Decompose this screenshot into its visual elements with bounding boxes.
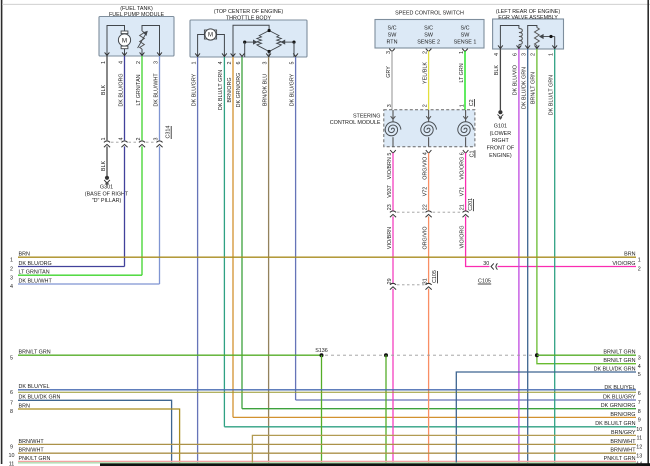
svg-text:DK BLU/GRY: DK BLU/GRY xyxy=(191,73,197,106)
svg-text:BLK: BLK xyxy=(494,65,500,76)
svg-text:DK GRN/ORG: DK GRN/ORG xyxy=(601,403,636,409)
steering control module box xyxy=(384,110,475,147)
svg-text:THROTTLE BODY: THROTTLE BODY xyxy=(226,16,272,22)
svg-text:31: 31 xyxy=(422,278,428,284)
wire ORG/VIO from module pin 4 xyxy=(428,153,430,211)
svg-text:4: 4 xyxy=(218,62,224,65)
svg-text:22: 22 xyxy=(422,204,428,210)
wire DK GRN/ORG from throttle pin xyxy=(241,57,243,409)
svg-text:5: 5 xyxy=(10,355,13,361)
svg-text:VIO/ORG: VIO/ORG xyxy=(459,225,465,248)
svg-text:2: 2 xyxy=(136,138,142,141)
svg-text:C314: C314 xyxy=(166,126,172,139)
fuel pump fuel level sensor wiring xyxy=(142,26,160,57)
wire VIO/BRN to bottom xyxy=(392,289,394,463)
splice drop junction xyxy=(384,353,388,357)
wire DK BLU/ORG from fuel pump pin 4 xyxy=(124,56,126,140)
dashed splice link S136 xyxy=(325,354,533,356)
svg-text:S/C: S/C xyxy=(388,26,397,32)
left wire 11 PNK/LT GRN xyxy=(18,460,636,462)
svg-text:21: 21 xyxy=(459,204,465,210)
wire DK BLU/ORG lower xyxy=(124,146,126,266)
svg-text:1: 1 xyxy=(191,62,197,65)
svg-text:4: 4 xyxy=(118,138,124,141)
svg-text:4: 4 xyxy=(494,53,500,56)
svg-text:ORG/VIO 4: ORG/VIO 4 xyxy=(422,152,428,180)
wire BRN/LT GRN left wire 5 xyxy=(18,354,322,356)
wire DK BLU/GRY from throttle pin xyxy=(295,57,297,400)
svg-text:VIO/ORG: VIO/ORG xyxy=(612,261,635,267)
svg-text:2: 2 xyxy=(531,53,537,56)
svg-text:DK BLU/DK GRN: DK BLU/DK GRN xyxy=(594,366,636,372)
svg-text:V71: V71 xyxy=(459,187,465,197)
svg-text:DK BLU/LT GRN: DK BLU/LT GRN xyxy=(595,421,635,427)
svg-text:SW: SW xyxy=(461,33,471,39)
bottom page-break bar xyxy=(100,463,650,466)
svg-text:14: 14 xyxy=(636,462,642,466)
svg-text:SW: SW xyxy=(388,33,398,39)
svg-text:DK BLU/GRY: DK BLU/GRY xyxy=(289,73,295,106)
svg-text:6: 6 xyxy=(236,62,242,65)
svg-text:BRN/LT GRN: BRN/LT GRN xyxy=(603,350,635,356)
wire BRN/LT GRN drop to bottom xyxy=(385,355,387,462)
svg-text:12: 12 xyxy=(636,445,642,451)
wire LT GRN/TAN lower xyxy=(141,146,143,275)
wire DK BLU/WHT lower xyxy=(159,146,161,284)
throttle motor M xyxy=(204,30,207,39)
svg-text:3: 3 xyxy=(522,53,528,56)
left wire 2 DK BLU/ORG xyxy=(18,266,125,268)
clockspring spirals xyxy=(385,122,401,136)
module exit stubs xyxy=(392,137,394,147)
svg-text:SENSE 1: SENSE 1 xyxy=(454,40,477,46)
wire BLK from EGR pin 4 xyxy=(499,49,501,110)
connector C105 breaks pins 29 31 xyxy=(390,283,396,285)
splice S136 xyxy=(320,353,324,357)
wire ORG/VIO to bottom xyxy=(428,289,430,463)
EGR pin arrows xyxy=(498,45,503,48)
svg-text:BRN/WHT: BRN/WHT xyxy=(610,448,636,454)
svg-text:BRN/LT GRN: BRN/LT GRN xyxy=(603,358,635,364)
svg-text:1: 1 xyxy=(10,257,13,263)
svg-text:BRN: BRN xyxy=(19,403,30,409)
svg-text:11: 11 xyxy=(636,436,642,442)
svg-text:DK BLU/LT GRN: DK BLU/LT GRN xyxy=(549,75,555,115)
svg-text:1: 1 xyxy=(101,61,107,64)
svg-text:1: 1 xyxy=(459,51,465,54)
wire DK BLU/GRY from throttle pin xyxy=(197,57,199,462)
svg-text:5: 5 xyxy=(638,372,641,378)
left wire 3 LT GRN/TAN xyxy=(18,274,142,276)
svg-text:SPEED CONTROL SWITCH: SPEED CONTROL SWITCH xyxy=(395,11,464,17)
C105 dashed link xyxy=(397,284,425,286)
svg-text:2: 2 xyxy=(422,104,428,107)
svg-text:DK BLU/LT GRN: DK BLU/LT GRN xyxy=(218,70,224,110)
svg-text:5: 5 xyxy=(289,62,295,65)
svg-text:29: 29 xyxy=(387,278,393,284)
TPS bottom wire to pin 3 xyxy=(268,52,270,58)
svg-text:BRN/WHT: BRN/WHT xyxy=(610,439,636,445)
svg-text:BRN/WHT: BRN/WHT xyxy=(19,439,45,445)
splice junction on BRN/LT GRN xyxy=(535,353,539,357)
wire VIO/BRN from module pin 5 xyxy=(392,153,394,211)
svg-text:3: 3 xyxy=(638,355,641,361)
svg-text:BLK: BLK xyxy=(101,85,107,96)
speed control switch box xyxy=(375,20,484,49)
svg-text:ENGINE): ENGINE) xyxy=(489,153,512,159)
svg-text:FUEL PUMP MODULE: FUEL PUMP MODULE xyxy=(109,12,165,18)
TPS top junction xyxy=(268,29,271,32)
wire DK BLU/DK GRN from EGR pin 3 xyxy=(527,49,529,462)
svg-text:DK BLU/GRY: DK BLU/GRY xyxy=(603,394,636,400)
svg-text:"D" PILLAR): "D" PILLAR) xyxy=(92,198,122,204)
C314 dashed links xyxy=(111,141,121,143)
corner throttle pin 4 to right wire 10 xyxy=(224,426,636,428)
wire DK BLU/VIO from EGR pin 6 xyxy=(518,49,520,462)
svg-text:DK GRN/ORG: DK GRN/ORG xyxy=(236,73,242,108)
svg-text:DK BLU/ORG: DK BLU/ORG xyxy=(118,73,124,106)
left wire 7 DK BLU/DK GRN xyxy=(18,400,172,462)
fuel pump module box xyxy=(99,17,174,57)
svg-text:(BASE OF RIGHT: (BASE OF RIGHT xyxy=(85,191,129,197)
right wire 5 DK BLU/DK GRN xyxy=(456,372,636,462)
throttle body box xyxy=(190,20,307,57)
svg-text:M: M xyxy=(208,33,213,39)
left wire 4 DK BLU/WHT xyxy=(18,283,160,285)
fuel pump motor M xyxy=(121,31,128,34)
svg-text:6: 6 xyxy=(638,391,641,397)
svg-text:FRONT OF: FRONT OF xyxy=(487,146,515,152)
TPS bridge diamond resistors xyxy=(257,31,269,52)
fuel pump pin arrows xyxy=(105,52,110,55)
svg-text:4: 4 xyxy=(638,364,641,370)
svg-text:YEL/BLK: YEL/BLK xyxy=(422,62,428,84)
fuel level variable resistor xyxy=(140,31,145,49)
page right border xyxy=(647,0,649,466)
wire VIO/ORG from module pin 6 xyxy=(465,153,467,211)
svg-text:G301: G301 xyxy=(100,185,113,191)
wire BRN/ORG from throttle pin xyxy=(232,57,234,417)
wire BRN/LT GRN drop from S136 to bottom xyxy=(321,355,323,462)
svg-text:10: 10 xyxy=(9,453,15,459)
svg-text:LT GRN: LT GRN xyxy=(459,63,465,82)
svg-text:1: 1 xyxy=(101,138,107,141)
svg-text:7: 7 xyxy=(10,400,13,406)
svg-text:2: 2 xyxy=(638,267,641,273)
EGR position sensor resistor xyxy=(535,28,540,46)
svg-text:4: 4 xyxy=(10,284,13,290)
svg-text:3: 3 xyxy=(386,51,392,54)
svg-text:3: 3 xyxy=(153,61,159,64)
svg-text:DK BLU/DK GRN: DK BLU/DK GRN xyxy=(19,395,61,401)
wire BRN/DK BLU from throttle pin xyxy=(268,57,270,462)
wire LT GRN xyxy=(464,51,466,110)
svg-text:VIO/ORG 6: VIO/ORG 6 xyxy=(459,152,465,180)
svg-text:SW: SW xyxy=(424,33,434,39)
svg-text:DK BLU/DK GRN: DK BLU/DK GRN xyxy=(522,67,528,109)
svg-text:VIO/BRN 5: VIO/BRN 5 xyxy=(387,153,393,180)
svg-text:2: 2 xyxy=(136,61,142,64)
throttle motor wiring xyxy=(198,35,205,58)
svg-text:6: 6 xyxy=(513,53,519,56)
EGR valve assembly box xyxy=(493,19,564,49)
svg-text:3: 3 xyxy=(262,62,268,65)
corner throttle pin 6 to right wire 8 xyxy=(242,408,636,410)
svg-text:3: 3 xyxy=(387,104,393,107)
svg-text:LT GRN/TAN: LT GRN/TAN xyxy=(136,74,142,105)
svg-text:DK BLU/YEL: DK BLU/YEL xyxy=(19,384,50,390)
EGR position sensor wiring xyxy=(528,26,537,50)
svg-text:EGR VALVE ASSEMBLY: EGR VALVE ASSEMBLY xyxy=(498,15,558,21)
left wire 6 DK BLU/YEL xyxy=(18,389,636,391)
wire GRY xyxy=(391,51,393,110)
svg-text:PNK/LT GRN: PNK/LT GRN xyxy=(19,456,51,462)
wire BLK to ground G301 xyxy=(106,146,108,176)
svg-text:DK BLU/ORG: DK BLU/ORG xyxy=(19,261,52,267)
wire BLK from fuel pump pin 1 xyxy=(106,56,108,140)
module exit arrows xyxy=(390,150,396,153)
svg-text:11: 11 xyxy=(9,461,15,466)
left wire 10 BRN/WHT xyxy=(18,452,636,454)
left wire 8 BRN xyxy=(18,409,180,462)
svg-text:1: 1 xyxy=(549,53,555,56)
svg-text:(FUEL TANK): (FUEL TANK) xyxy=(120,6,153,12)
wire VIO/ORG below C201 turning right xyxy=(466,216,490,266)
wire BRN/LT GRN from EGR pin 2 xyxy=(537,49,636,364)
switch exit forks xyxy=(389,49,395,52)
right wire 11 BRN/GRY xyxy=(252,435,636,462)
page top rule xyxy=(2,3,650,5)
page left border xyxy=(1,0,3,464)
EGR solenoid wiring xyxy=(500,26,519,50)
ground G101 xyxy=(498,110,502,114)
svg-text:2: 2 xyxy=(10,267,13,273)
wire DK BLU/WHT from fuel pump pin 3 xyxy=(159,56,161,140)
svg-text:BRN/LT GRN: BRN/LT GRN xyxy=(531,72,537,104)
svg-text:V937: V937 xyxy=(387,185,393,198)
svg-text:9: 9 xyxy=(638,418,641,424)
fuel pump internal wiring xyxy=(107,26,125,57)
corner throttle pin 2 to right wire 9 xyxy=(233,416,636,418)
svg-text:(LOWER: (LOWER xyxy=(490,131,512,137)
wire VIO/ORG to right edge wire 2 xyxy=(498,266,636,268)
svg-text:SENSE 2: SENSE 2 xyxy=(417,40,440,46)
svg-text:V72: V72 xyxy=(422,187,428,197)
C201 dashed links xyxy=(397,211,425,213)
svg-text:3: 3 xyxy=(10,275,13,281)
svg-text:9: 9 xyxy=(10,444,13,450)
svg-text:8: 8 xyxy=(10,409,13,415)
wire DK BLU/LT GRN from EGR pin 1 xyxy=(554,49,556,462)
throttle pin arrows xyxy=(195,53,200,56)
svg-text:DK BLU/YEL: DK BLU/YEL xyxy=(604,385,635,391)
svg-text:1: 1 xyxy=(459,104,465,107)
corner throttle pin 5 to right wire 7 xyxy=(296,399,636,401)
svg-text:S/C: S/C xyxy=(424,26,433,32)
left wire 9 BRN/WHT xyxy=(18,443,636,445)
svg-text:13: 13 xyxy=(636,453,642,459)
svg-text:S136: S136 xyxy=(315,348,328,354)
svg-text:DK BLU/VIO: DK BLU/VIO xyxy=(513,65,519,95)
svg-text:STEERING: STEERING xyxy=(353,113,381,119)
svg-text:8: 8 xyxy=(638,409,641,415)
wire VIO/BRN below C201 xyxy=(392,216,394,283)
wire YEL/BLK xyxy=(428,51,430,110)
throttle TPS bridge wiring xyxy=(233,25,269,57)
svg-text:DK BLU/WHT: DK BLU/WHT xyxy=(19,278,53,284)
svg-text:M: M xyxy=(122,38,127,45)
svg-text:RTN: RTN xyxy=(387,40,398,46)
svg-text:30: 30 xyxy=(483,261,489,267)
TPS left wiper xyxy=(245,41,254,43)
svg-text:DK BLU/WHT: DK BLU/WHT xyxy=(153,73,159,107)
EGR sensor wiper xyxy=(543,36,555,38)
TPS bottom junction xyxy=(268,50,271,53)
svg-text:G101: G101 xyxy=(494,123,507,129)
svg-text:23: 23 xyxy=(387,204,393,210)
svg-text:(TOP CENTER OF ENGINE): (TOP CENTER OF ENGINE) xyxy=(214,9,283,15)
svg-text:BRN/WHT: BRN/WHT xyxy=(19,448,45,454)
svg-text:RIGHT: RIGHT xyxy=(492,138,509,144)
svg-text:BRN/ORG: BRN/ORG xyxy=(610,412,635,418)
ground G301 xyxy=(105,176,109,180)
TPS right wiper xyxy=(284,41,294,43)
connector C201 breaks xyxy=(390,211,396,213)
svg-text:3: 3 xyxy=(153,138,159,141)
wire DK BLU/LT GRN from throttle pin xyxy=(223,57,225,427)
svg-text:GRY: GRY xyxy=(386,66,392,78)
svg-text:2: 2 xyxy=(227,62,233,65)
wire BRN/LT GRN right wire 3 xyxy=(537,354,636,356)
svg-text:2: 2 xyxy=(422,51,428,54)
connector C314 breaks xyxy=(104,141,110,143)
svg-text:7: 7 xyxy=(638,400,641,406)
svg-text:LT GRN/TAN: LT GRN/TAN xyxy=(19,270,50,276)
svg-text:BRN/DK BLU: BRN/DK BLU xyxy=(262,74,268,106)
svg-text:BRN/LT GRN: BRN/LT GRN xyxy=(19,350,51,356)
module entry stubs and arrows xyxy=(392,110,394,119)
svg-text:4: 4 xyxy=(118,61,124,64)
svg-text:BLK: BLK xyxy=(101,161,107,172)
svg-text:S/C: S/C xyxy=(461,26,470,32)
svg-text:BRN/GRY: BRN/GRY xyxy=(611,430,636,436)
svg-text:ORG/VIO: ORG/VIO xyxy=(422,226,428,249)
svg-text:(LEFT REAR OF ENGINE): (LEFT REAR OF ENGINE) xyxy=(496,9,561,15)
svg-text:1: 1 xyxy=(638,257,641,263)
wire LT GRN/TAN from fuel pump pin 2 xyxy=(141,56,143,140)
left wire 1 BRN xyxy=(18,256,636,258)
wire ORG/VIO below C201 xyxy=(428,216,430,283)
svg-text:BRN/ORG: BRN/ORG xyxy=(227,77,233,102)
svg-text:VIO/BRN: VIO/BRN xyxy=(387,227,393,249)
svg-text:BRN: BRN xyxy=(624,252,635,258)
svg-text:10: 10 xyxy=(636,427,642,433)
svg-text:PNK/LT GRN: PNK/LT GRN xyxy=(604,456,636,462)
EGR solenoid coil xyxy=(519,29,522,45)
svg-text:BRN: BRN xyxy=(19,252,30,258)
svg-text:CONTROL MODULE: CONTROL MODULE xyxy=(330,120,381,126)
svg-text:6: 6 xyxy=(10,390,13,396)
